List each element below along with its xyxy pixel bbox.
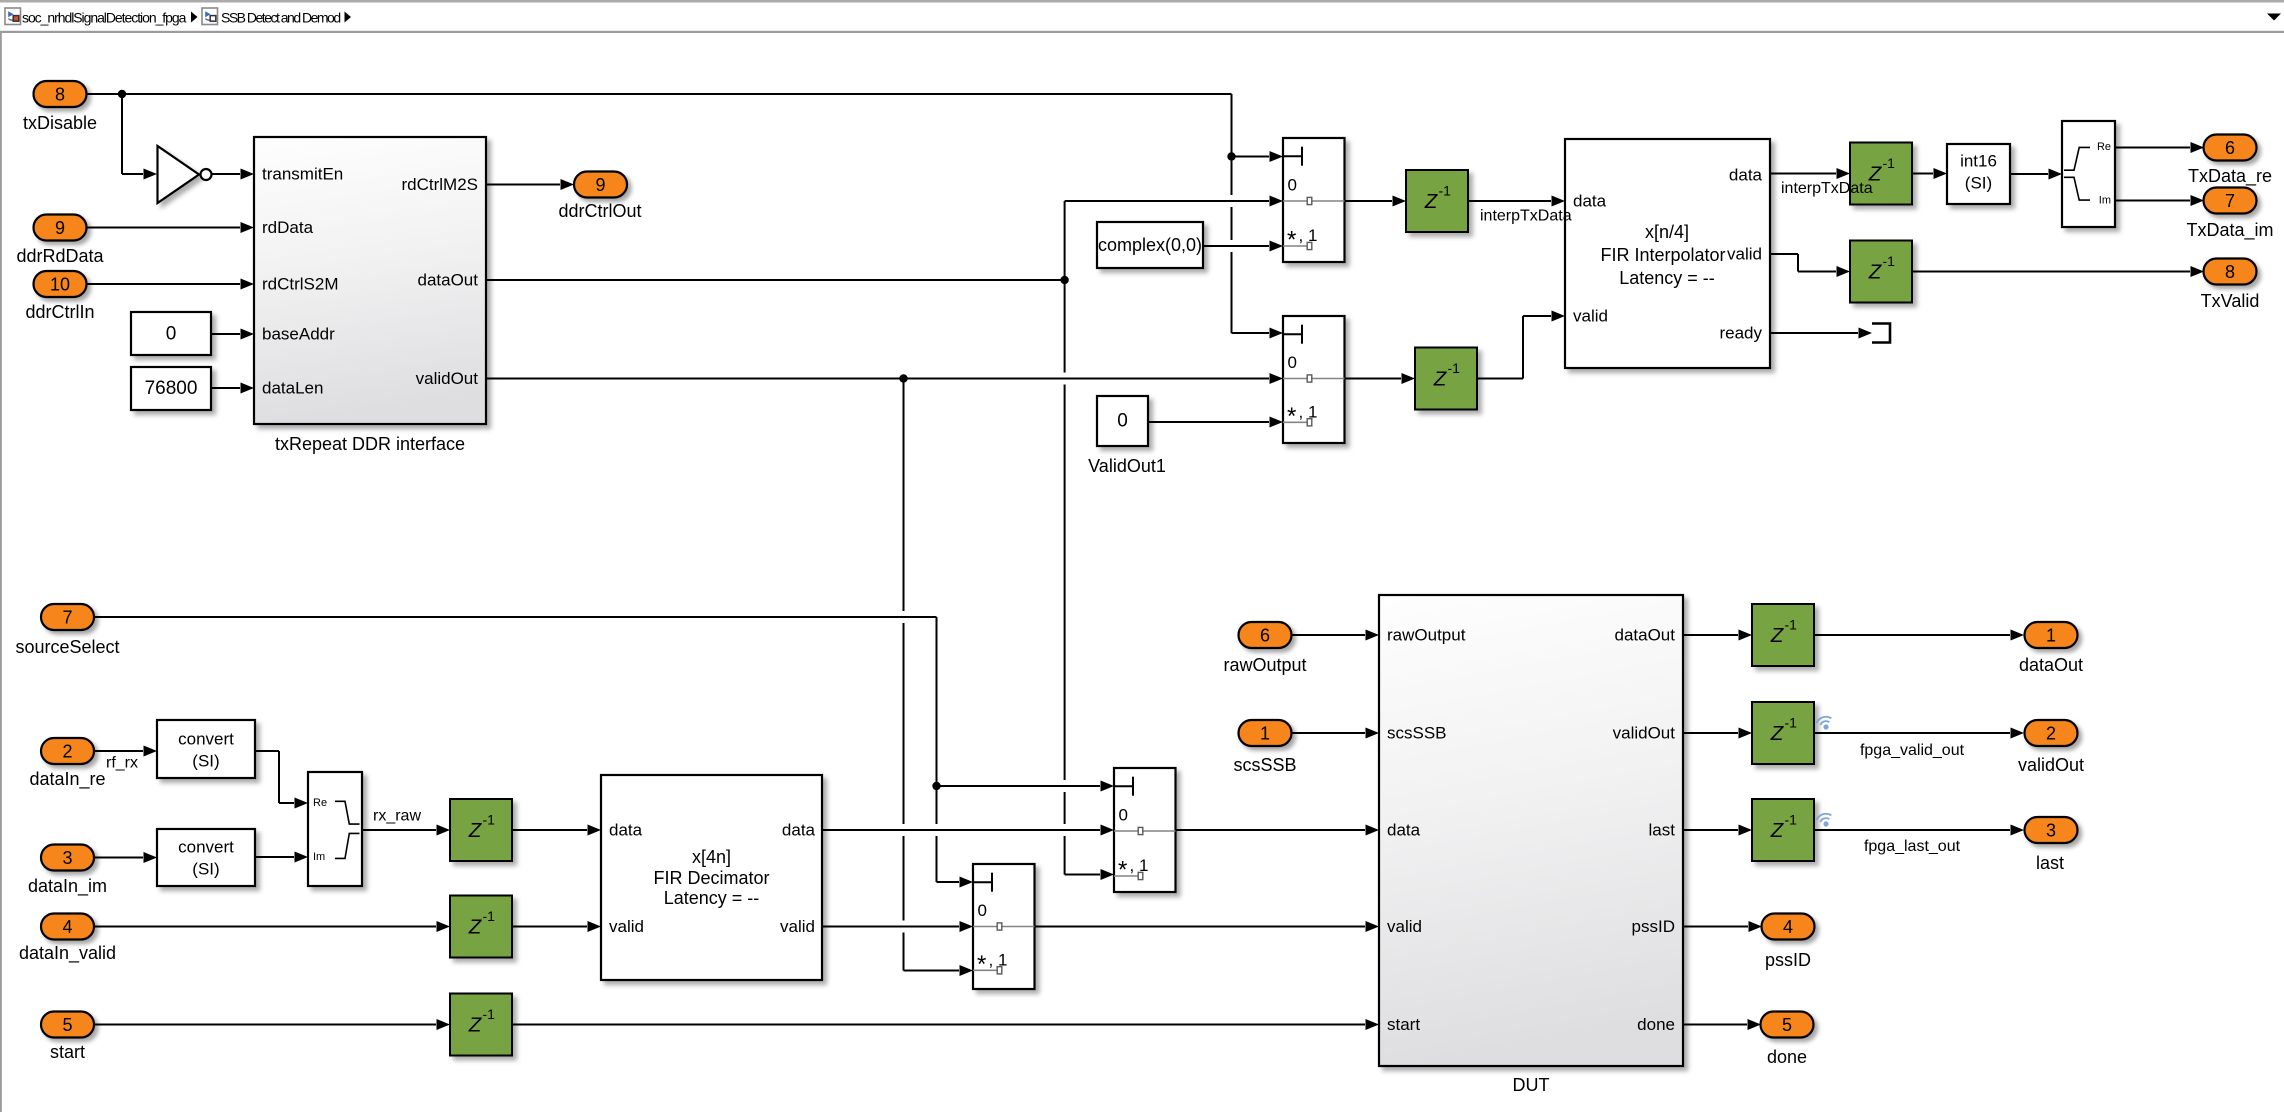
svg-text:start: start — [50, 1042, 85, 1062]
svg-text:9: 9 — [55, 218, 65, 238]
svg-text:Im: Im — [2099, 195, 2111, 207]
svg-text:rx_raw: rx_raw — [373, 808, 421, 825]
svg-text:, 1: , 1 — [989, 950, 1008, 969]
svg-text:*: * — [1287, 227, 1296, 254]
svg-text:FIR Decimator: FIR Decimator — [653, 868, 769, 888]
svg-text:3: 3 — [2046, 821, 2056, 841]
svg-text:Z: Z — [1770, 819, 1785, 842]
svg-text:7: 7 — [2225, 191, 2235, 211]
svg-text:done: done — [1637, 1015, 1675, 1034]
svg-text:x[4n]: x[4n] — [692, 847, 731, 867]
svg-text:-1: -1 — [483, 812, 496, 828]
svg-text:SSB Detect and Demod: SSB Detect and Demod — [221, 9, 340, 25]
svg-text:rdCtrlM2S: rdCtrlM2S — [401, 175, 478, 194]
svg-text:Z: Z — [1433, 368, 1448, 391]
svg-text:TxData_re: TxData_re — [2188, 166, 2272, 187]
svg-text:rdData: rdData — [262, 218, 314, 237]
svg-text:0: 0 — [1117, 411, 1128, 432]
svg-text:Latency = --: Latency = -- — [1619, 268, 1715, 288]
svg-text:Z: Z — [468, 819, 483, 842]
svg-text:6: 6 — [1260, 626, 1270, 646]
svg-text:ddrRdData: ddrRdData — [16, 246, 104, 266]
svg-text:(SI): (SI) — [192, 752, 219, 771]
svg-text:valid: valid — [609, 917, 644, 936]
svg-text:sourceSelect: sourceSelect — [15, 637, 119, 657]
svg-text:convert: convert — [178, 730, 234, 749]
svg-text:rf_rx: rf_rx — [106, 755, 138, 772]
svg-text:valid: valid — [1573, 307, 1608, 326]
svg-text:Z: Z — [1424, 190, 1439, 213]
svg-text:int16: int16 — [1960, 152, 1997, 171]
svg-text:8: 8 — [2225, 262, 2235, 282]
svg-text:1: 1 — [2046, 626, 2056, 646]
svg-text:TxData_im: TxData_im — [2186, 220, 2273, 241]
svg-text:soc_nrhdlSignalDetection_fpga: soc_nrhdlSignalDetection_fpga — [22, 9, 187, 25]
svg-text:Z: Z — [1770, 722, 1785, 745]
svg-text:data: data — [1573, 192, 1607, 211]
svg-text:data: data — [1387, 821, 1421, 840]
svg-text:DUT: DUT — [1513, 1075, 1550, 1095]
svg-text:ValidOut1: ValidOut1 — [1088, 456, 1166, 476]
svg-text:data: data — [782, 821, 816, 840]
svg-text:76800: 76800 — [145, 378, 198, 399]
svg-text:dataLen: dataLen — [262, 379, 323, 398]
svg-text:2: 2 — [2046, 724, 2056, 744]
svg-text:rdCtrlS2M: rdCtrlS2M — [262, 275, 339, 294]
svg-text:-1: -1 — [1785, 617, 1798, 633]
svg-text:dataIn_re: dataIn_re — [29, 769, 105, 790]
svg-text:dataIn_im: dataIn_im — [28, 876, 107, 897]
svg-text:-1: -1 — [1448, 360, 1461, 376]
svg-text:validOut: validOut — [1613, 724, 1676, 743]
svg-text:data: data — [1729, 166, 1763, 185]
svg-text:pssID: pssID — [1632, 917, 1675, 936]
svg-text:x[n/4]: x[n/4] — [1645, 222, 1689, 242]
svg-text:5: 5 — [62, 1015, 72, 1035]
svg-text:ready: ready — [1719, 324, 1762, 343]
svg-text:4: 4 — [62, 917, 72, 937]
svg-text:interpTxData: interpTxData — [1480, 208, 1572, 225]
svg-text:-1: -1 — [1439, 183, 1452, 199]
svg-text:, 1: , 1 — [1130, 856, 1149, 875]
svg-text:pssID: pssID — [1765, 950, 1811, 970]
svg-text:validOut: validOut — [416, 369, 479, 388]
svg-text:*: * — [1118, 857, 1127, 884]
svg-text:(SI): (SI) — [1965, 174, 1992, 193]
svg-text:fpga_valid_out: fpga_valid_out — [1860, 742, 1965, 759]
svg-text:8: 8 — [55, 85, 65, 105]
svg-text:Z: Z — [468, 1014, 483, 1037]
svg-text:valid: valid — [1727, 245, 1762, 264]
svg-text:done: done — [1767, 1047, 1807, 1067]
svg-text:rawOutput: rawOutput — [1223, 655, 1306, 675]
svg-text:scsSSB: scsSSB — [1233, 755, 1296, 775]
svg-text:0: 0 — [1288, 353, 1297, 372]
svg-text:Z: Z — [1770, 624, 1785, 647]
svg-text:convert: convert — [178, 838, 234, 857]
svg-text:2: 2 — [62, 742, 72, 762]
svg-text:start: start — [1387, 1015, 1420, 1034]
svg-text:ddrCtrlIn: ddrCtrlIn — [25, 302, 94, 322]
svg-text:Re: Re — [2097, 141, 2111, 153]
svg-text:baseAddr: baseAddr — [262, 325, 335, 344]
svg-text:scsSSB: scsSSB — [1387, 724, 1447, 743]
svg-text:3: 3 — [62, 848, 72, 868]
svg-text:-1: -1 — [1883, 155, 1896, 171]
svg-text:-1: -1 — [1785, 812, 1798, 828]
svg-text:txRepeat DDR interface: txRepeat DDR interface — [275, 434, 465, 454]
svg-text:rawOutput: rawOutput — [1387, 626, 1466, 645]
svg-text:9: 9 — [595, 175, 605, 195]
svg-text:6: 6 — [2225, 138, 2235, 158]
svg-text:-1: -1 — [1883, 253, 1896, 269]
svg-text:0: 0 — [978, 901, 987, 920]
svg-text:*: * — [1287, 403, 1296, 430]
svg-text:dataIn_valid: dataIn_valid — [19, 943, 116, 964]
svg-text:Im: Im — [313, 851, 325, 863]
svg-text:FIR Interpolator: FIR Interpolator — [1600, 245, 1725, 265]
svg-text:0: 0 — [166, 324, 177, 345]
svg-text:txDisable: txDisable — [23, 113, 97, 133]
svg-text:0: 0 — [1288, 176, 1297, 195]
svg-text:transmitEn: transmitEn — [262, 165, 343, 184]
svg-text:data: data — [609, 821, 643, 840]
svg-text:10: 10 — [50, 275, 70, 295]
svg-text:interpTxData: interpTxData — [1781, 180, 1873, 197]
svg-text:dataOut: dataOut — [1615, 626, 1676, 645]
svg-text:validOut: validOut — [2018, 755, 2084, 775]
svg-text:valid: valid — [780, 917, 815, 936]
svg-text:last: last — [2036, 853, 2064, 873]
svg-text:Re: Re — [313, 797, 327, 809]
svg-text:valid: valid — [1387, 917, 1422, 936]
svg-text:dataOut: dataOut — [2019, 655, 2083, 675]
svg-text:Z: Z — [1868, 261, 1883, 284]
svg-text:4: 4 — [1783, 917, 1793, 937]
svg-text:dataOut: dataOut — [418, 271, 479, 290]
svg-text:-1: -1 — [1785, 715, 1798, 731]
svg-text:TxValid: TxValid — [2201, 291, 2260, 311]
svg-text:, 1: , 1 — [1299, 402, 1318, 421]
svg-text:last: last — [1649, 821, 1676, 840]
svg-text:0: 0 — [1119, 806, 1128, 825]
svg-text:1: 1 — [1260, 724, 1270, 744]
svg-text:fpga_last_out: fpga_last_out — [1864, 838, 1961, 855]
svg-text:Latency = --: Latency = -- — [664, 888, 760, 908]
svg-text:ddrCtrlOut: ddrCtrlOut — [558, 201, 641, 221]
svg-text:*: * — [977, 951, 986, 978]
svg-text:Z: Z — [468, 916, 483, 939]
svg-text:, 1: , 1 — [1299, 226, 1318, 245]
svg-text:7: 7 — [62, 608, 72, 628]
svg-text:5: 5 — [1782, 1015, 1792, 1035]
svg-text:(SI): (SI) — [192, 860, 219, 879]
svg-text:-1: -1 — [483, 1006, 496, 1022]
svg-text:-1: -1 — [483, 908, 496, 924]
svg-text:complex(0,0): complex(0,0) — [1098, 235, 1202, 255]
